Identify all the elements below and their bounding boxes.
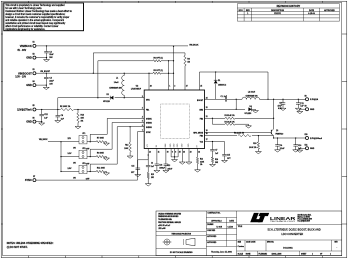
resistor R2 in FB1 divider	[61, 108, 74, 110]
svg-text:C1 .1uF: C1 .1uF	[221, 96, 228, 98]
resistor R4	[225, 123, 235, 125]
svg-text:R6 OPT (1): R6 OPT (1)	[154, 57, 164, 59]
wire R6 branch corner at x=97.9	[98, 60, 153, 62]
wire boost rail up-tap vertical at x=93.3	[93, 73, 94, 74]
capacitor C2	[46, 46, 48, 52]
diode D2	[110, 96, 113, 100]
svg-text:6-15-06: 6-15-06	[308, 13, 315, 15]
inductor L1	[124, 73, 125, 74]
ground symbol below R16	[210, 164, 216, 166]
svg-text:TECHNOLOGY: TECHNOLOGY	[270, 221, 297, 223]
capacitor C8	[57, 110, 59, 116]
svg-text:C11: C11	[300, 103, 303, 105]
ground symbol below R12	[195, 170, 201, 172]
capacitor C9	[282, 99, 284, 103]
svg-text:SHDN1: SHDN1	[146, 118, 152, 120]
ground symbol GND pin 35	[179, 162, 185, 164]
wire bus to jumper JP2	[61, 156, 79, 158]
junction C2 on VIN/BUCK rail	[46, 45, 47, 46]
wire SYNC route	[36, 179, 138, 181]
disclaimer text box	[4, 3, 84, 31]
svg-text:GND: GND	[26, 57, 32, 60]
svg-text:R8: R8	[187, 58, 189, 60]
contract no cell	[206, 217, 236, 219]
approvals header	[206, 222, 236, 224]
svg-text:PROTO: PROTO	[274, 13, 281, 15]
ground symbol below C12	[39, 123, 45, 125]
ground symbol GND pin 34	[186, 162, 192, 164]
junction D1 anode on jog wire	[215, 71, 216, 72]
svg-text:FMMT619: FMMT619	[276, 134, 284, 136]
wire Q1 collector to 3.3V rail and FB2	[273, 99, 275, 129]
svg-text:(1) DO NOT STUFF.: (1) DO NOT STUFF.	[7, 247, 28, 249]
svg-text:JP2: JP2	[82, 148, 85, 150]
svg-text:L2 10uH: L2 10uH	[248, 92, 256, 94]
ground symbol JP3 pulldown	[104, 173, 110, 175]
svg-text:R5 OPT (1): R5 OPT (1)	[154, 70, 164, 72]
resistor R15 compensation	[147, 173, 149, 179]
svg-text:3.3V - 10V: 3.3V - 10V	[15, 77, 26, 79]
wire R11 to ground	[105, 171, 107, 173]
svg-text:GND: GND	[26, 84, 32, 87]
svg-text:SW2: SW2	[199, 109, 203, 111]
ground symbol below C4	[43, 87, 49, 89]
resistor R12 RT	[197, 149, 199, 158]
junction jog leg on rail	[267, 99, 268, 100]
wire SW2 pin	[205, 108, 246, 110]
junction 12V rail at C8 and jumper bus	[57, 109, 58, 110]
ground symbol below C9	[280, 108, 286, 110]
terminal E11 GND	[306, 147, 309, 150]
capacitor C13	[165, 149, 167, 165]
jumper JP1	[79, 135, 87, 144]
wire 2.5V LDO output rail	[274, 137, 306, 139]
wire Q1 emitter to 2.5V rail	[273, 136, 275, 138]
resistor R8	[184, 53, 186, 56]
capacitor C12	[41, 110, 43, 115]
projection symbol	[164, 239, 170, 245]
svg-text:D2: D2	[107, 94, 109, 96]
wire GND pin 35 stub	[181, 149, 183, 163]
svg-text:CMDSH-3: CMDSH-3	[218, 84, 226, 86]
diode D4 catch	[248, 107, 251, 111]
resistor R6 FB3	[238, 134, 251, 136]
svg-text:C8: C8	[61, 115, 63, 117]
svg-text:SHDN3: SHDN3	[146, 127, 152, 129]
svg-text:C15: C15	[227, 155, 230, 157]
size cage dwg row	[237, 239, 342, 241]
inductor L2	[242, 97, 260, 99]
svg-text:ECO: ECO	[239, 10, 244, 12]
wire top pin x=149 to boost rail	[148, 73, 150, 90]
wire VC2 pin right	[205, 141, 225, 143]
terminal E1 VIN/BUCK	[33, 44, 36, 47]
jumper JP3	[79, 165, 87, 174]
svg-text:D1: D1	[218, 80, 220, 82]
capacitor C15	[222, 154, 227, 156]
junction bus row JP1	[60, 141, 61, 142]
svg-text:R6 22.1K 1%: R6 22.1K 1%	[234, 133, 245, 135]
junction bus row JP3	[60, 171, 61, 172]
wire top pin x=168.5 to boost rail	[168, 61, 170, 90]
capacitor C1 bootstrap	[224, 97, 226, 102]
terminal E2 GND	[33, 56, 36, 59]
terminal E10 2.5V output	[306, 137, 309, 140]
svg-text:REVISION HISTORY: REVISION HISTORY	[277, 5, 301, 8]
ground symbol JP1 pulldown	[104, 143, 110, 145]
svg-text:FB1: FB1	[146, 110, 149, 112]
wire R4 branch	[211, 118, 213, 124]
terminal E4 GND	[33, 84, 36, 87]
ground symbol below C8	[55, 121, 61, 123]
capacitor C4	[45, 73, 47, 77]
ground symbol at E11	[297, 150, 303, 152]
resistor R6	[153, 60, 161, 62]
ground symbol below C10	[293, 150, 299, 152]
svg-text:Q1: Q1	[276, 130, 278, 132]
ground symbol JP2 pulldown	[104, 158, 110, 160]
svg-text:FB3: FB3	[200, 136, 203, 138]
wire BOOST jog from top pin x=198.7	[199, 72, 201, 90]
svg-text:FB2: FB2	[200, 118, 203, 120]
title block column dividers	[205, 211, 207, 256]
wire boost SW node y=97.7	[58, 97, 110, 99]
junction R10 on FB3 wire	[258, 135, 259, 136]
svg-text:SCH, LT3579EUF, DC/DC BOOST, B: SCH, LT3579EUF, DC/DC BOOST, BUCK AND	[267, 227, 320, 231]
capacitor C6	[277, 138, 279, 145]
revision history table	[237, 4, 339, 21]
svg-text:GND: GND	[310, 109, 315, 111]
capacitor C10	[295, 138, 297, 145]
svg-text:VIN_BUCK: VIN_BUCK	[39, 139, 48, 141]
wire FB3 pin	[205, 135, 238, 137]
svg-text:C10: C10	[298, 145, 301, 147]
wire VIN vertical x=173.5	[173, 46, 175, 90]
wire GND terminal stub	[300, 108, 306, 110]
svg-text:SYNC: SYNC	[25, 179, 32, 182]
title block left column rows	[156, 231, 206, 233]
wire GND stub to C2	[36, 57, 47, 59]
ground symbol below C13	[163, 170, 169, 172]
svg-text:Thursday, June 15, 2006: Thursday, June 15, 2006	[211, 252, 232, 254]
wire VIN/BOOST rail	[36, 72, 153, 74]
svg-text:UPS120: UPS120	[103, 101, 110, 103]
Linear Technology logo	[250, 213, 261, 222]
capacitor C11	[297, 99, 299, 103]
resistor R10	[257, 136, 259, 142]
svg-text:R9 100K: R9 100K	[97, 152, 105, 154]
svg-text:LT3579EUF: LT3579EUF	[131, 88, 142, 90]
svg-text:R16: R16	[215, 159, 218, 161]
svg-text:C7: C7	[215, 150, 217, 152]
resistor R3	[225, 117, 235, 119]
junction bus row JP2	[60, 156, 61, 157]
terminal E3 VIN/BOOST	[33, 72, 36, 75]
ground symbol below C15	[222, 160, 228, 162]
wire bus to jumper JP1	[61, 141, 79, 143]
wire C1 to SW node	[227, 98, 242, 100]
junction stair tap JP1	[90, 141, 91, 142]
svg-text:LDO CONVERTER: LDO CONVERTER	[281, 232, 303, 236]
junction C4 on boost rail	[46, 73, 47, 74]
wire JP1 to SHDN1	[89, 134, 91, 141]
wire 3.3V output rail	[260, 98, 306, 100]
svg-text:R2 100K 1%: R2 100K 1%	[60, 106, 71, 108]
wire FB2 pin	[205, 117, 226, 119]
U2 exposed pad dashed outline	[161, 104, 190, 138]
resistor R5 on boost rail	[153, 72, 161, 74]
junction C10 on 2.5V rail	[295, 137, 296, 138]
svg-text:12V@175mA: 12V@175mA	[17, 109, 32, 112]
svg-text:GND: GND	[310, 148, 315, 150]
capacitor C7	[212, 142, 214, 150]
ground symbol below R10	[255, 152, 261, 154]
wire C15 branch corner	[224, 142, 226, 155]
svg-text:VIN_BOOST: VIN_BOOST	[40, 71, 51, 73]
svg-text:R13: R13	[125, 145, 128, 147]
frame zone tick marks bottom	[28, 256, 30, 258]
scale filename sheet row	[237, 250, 342, 252]
junction VC2 compensation	[212, 141, 213, 142]
svg-text:NPN_DRIVE: NPN_DRIVE	[193, 133, 204, 135]
ground symbol below R15	[145, 184, 151, 186]
ground symbol below R4	[246, 126, 252, 128]
capacitor C14	[136, 167, 141, 169]
svg-text:R10: R10	[253, 143, 256, 145]
wire GND stub to C4	[36, 84, 46, 86]
capacitor C16 soft-start	[156, 149, 158, 165]
junction C11 on 3.3V rail	[298, 99, 299, 100]
svg-text:VIN/BOOST: VIN/BOOST	[18, 72, 32, 75]
ground symbol GND pins left	[172, 160, 178, 162]
svg-text:GND: GND	[26, 121, 32, 124]
svg-text:JP1: JP1	[82, 133, 85, 135]
frame zone tick marks sides	[1, 33, 2, 35]
junction 12V rail at R14	[77, 109, 78, 110]
svg-text:U2: U2	[136, 86, 138, 88]
wire VIN/BUCK rail	[36, 45, 188, 47]
svg-text:JP3: JP3	[82, 163, 85, 165]
ground symbol at E9	[297, 111, 303, 113]
ground symbol below R14	[75, 127, 81, 129]
wire GND pin 34 stub	[188, 149, 190, 163]
svg-text:VC2: VC2	[200, 142, 203, 144]
junction C9 on 3.3V rail	[282, 99, 283, 100]
resistor R11	[87, 171, 96, 173]
svg-text:SW1: SW1	[146, 99, 150, 101]
wire VIN_BUCK stub to jumper bus	[48, 141, 61, 143]
wire GND pin stubs joined	[170, 149, 172, 157]
op-amp U2 LT3579EUF IC body	[144, 90, 204, 149]
svg-text:R7 100K: R7 100K	[97, 138, 105, 140]
wire BOOST pin to C1	[205, 98, 226, 100]
svg-text:SYNC: SYNC	[146, 132, 151, 134]
junction R6 wire at VIN vertical	[173, 60, 174, 61]
svg-text:1%: 1%	[81, 121, 84, 123]
svg-text:VIN_BUCK: VIN_BUCK	[189, 44, 199, 46]
junction SW node vertical	[236, 99, 237, 100]
jumper JP2	[79, 150, 87, 159]
resistor R9	[87, 156, 96, 158]
svg-text:L1: L1	[116, 78, 118, 80]
svg-text:10.0K 1%: 10.0K 1%	[249, 147, 257, 149]
diode D1	[215, 72, 217, 80]
ground symbol below C2	[44, 60, 50, 62]
wire bus to jumper JP3	[61, 171, 79, 173]
svg-text:10uH: 10uH	[114, 82, 119, 84]
junction 12V rail at C12	[41, 109, 42, 110]
svg-text:UPL2/20: UPL2/20	[245, 113, 252, 115]
wire R9 to ground	[105, 156, 107, 158]
junction R13 on SHDN3 wire	[129, 126, 130, 127]
junction L1 bottom on SW wire	[124, 97, 125, 98]
wire NPN_DRIVE pin to Q1 base	[205, 131, 272, 133]
ground symbol below C6	[275, 150, 281, 152]
title block outline	[156, 211, 342, 256]
resistor R7	[87, 141, 96, 143]
ground symbol below R13	[127, 156, 133, 158]
junction FB2 tap	[212, 118, 213, 119]
logo row divider	[237, 223, 342, 225]
svg-text:VIN/BUCK: VIN/BUCK	[20, 45, 32, 48]
ground symbol below C16	[154, 170, 160, 172]
capacitor C3 compensation	[147, 155, 149, 165]
svg-text:SHDN2: SHDN2	[146, 123, 152, 125]
junction stair tap JP3	[90, 171, 91, 172]
svg-text:BOOST: BOOST	[197, 100, 204, 102]
approvals rows	[206, 228, 236, 230]
svg-text:1: 1	[247, 13, 248, 15]
terminal E9 GND	[306, 108, 309, 111]
svg-text:C9: C9	[279, 103, 281, 105]
wire R7 to ground	[105, 141, 107, 143]
svg-text:NOTES: UNLESS OTHERWISE SPECIF: NOTES: UNLESS OTHERWISE SPECIFIED:	[7, 243, 54, 245]
wire VC1 pin down	[147, 149, 149, 156]
junction C6 on 2.5V rail	[277, 137, 278, 138]
wire 12V rail	[36, 109, 60, 111]
svg-text:1uF: 1uF	[215, 153, 218, 155]
wire horizontal to R8 at y=52.9	[93, 52, 185, 54]
junction boost diode wire at x=97.9	[97, 97, 98, 98]
wire JP3 to SHDN3	[89, 164, 91, 171]
wire D4 cathode to ground	[252, 108, 256, 110]
resistor R16	[211, 157, 213, 163]
ground symbol D4	[253, 111, 259, 113]
terminal E5 12V output	[33, 108, 36, 111]
junction stair tap JP2	[90, 156, 91, 157]
svg-text:C2: C2	[49, 51, 51, 53]
wire JP2 to SHDN2	[89, 149, 91, 156]
svg-text:R11 100K: R11 100K	[97, 167, 106, 169]
wire VC1 branch to C14	[147, 155, 149, 160]
ground symbol below C11	[295, 108, 301, 110]
svg-text:DESCRIPTION: DESCRIPTION	[271, 10, 285, 12]
svg-text:C12: C12	[44, 114, 47, 116]
svg-text:C6: C6	[280, 145, 282, 147]
junction FB2 on sense vertical	[273, 118, 274, 119]
resistor R14 FB1 lower divider	[77, 110, 79, 114]
wire jumper feed bus	[60, 142, 62, 172]
terminal E6 GND	[33, 120, 36, 123]
ground symbol below C14	[135, 175, 141, 177]
resistor R13	[129, 127, 131, 143]
wire 12V output corner at x=57.8	[57, 98, 59, 110]
transistor Q1	[270, 130, 272, 135]
wire GND stub to C12	[36, 121, 42, 123]
terminal E7 SYNC	[33, 179, 36, 182]
terminal E8 3.3V output	[306, 98, 309, 101]
wire GND terminal E11 stub	[300, 147, 306, 149]
